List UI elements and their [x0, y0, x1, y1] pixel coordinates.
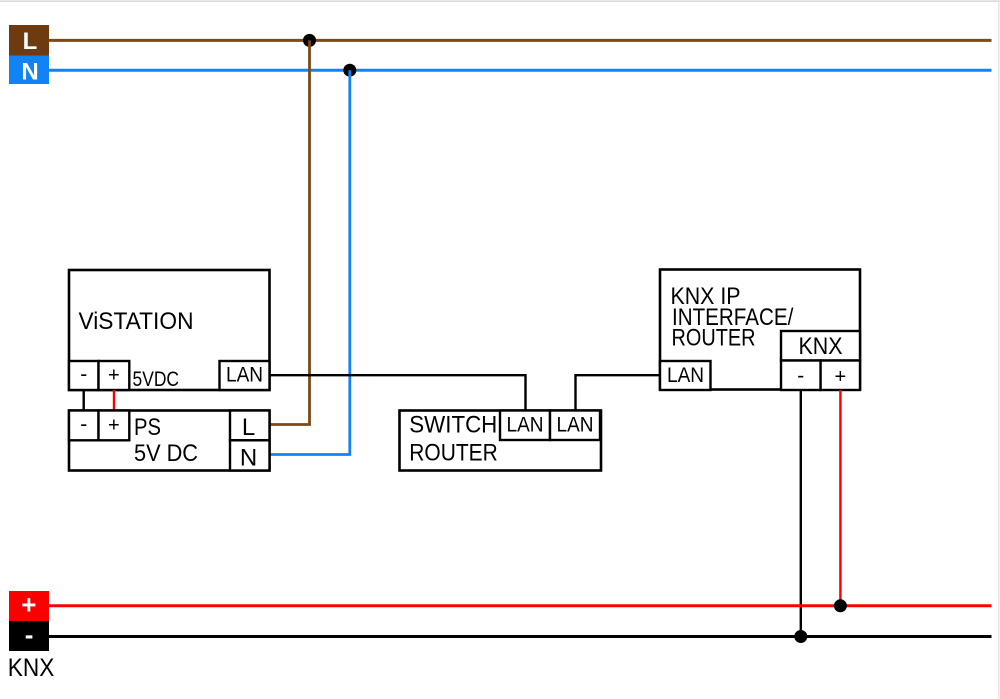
- svg-text:PS: PS: [134, 414, 161, 441]
- node L terminal box: [9, 25, 49, 56]
- box KNX sub-terminal block: [781, 331, 860, 361]
- svg-text:KNX: KNX: [799, 333, 843, 360]
- terminal LAN (knx ip): [660, 361, 711, 390]
- svg-text:+: +: [21, 590, 36, 620]
- box PS 5V DC power supply: [69, 411, 270, 471]
- top page hairline: [0, 0, 1000, 2]
- node N terminal box: [9, 56, 49, 85]
- wire KNX plus drop (red): [839, 390, 841, 606]
- svg-text:-: -: [80, 413, 87, 436]
- right page hairline: [998, 0, 1000, 699]
- box KNX IP INTERFACE/ROUTER: [660, 270, 860, 390]
- svg-text:ROUTER: ROUTER: [409, 440, 498, 467]
- box SWITCH ROUTER: [400, 411, 602, 471]
- svg-text:ROUTER: ROUTER: [672, 325, 756, 352]
- wire LAN switch to KNX IP router: [576, 375, 661, 410]
- svg-text:-: -: [80, 363, 87, 386]
- svg-text:N: N: [240, 444, 257, 471]
- wire KNX minus line (black bus): [49, 635, 992, 638]
- terminal LAN 2 (switch): [550, 411, 600, 441]
- wire minus ViSTATION to PS: [82, 390, 84, 411]
- wire KNX plus line (red bus): [49, 604, 992, 607]
- svg-text:+: +: [108, 415, 120, 437]
- terminal LAN (ViSTATION): [220, 361, 270, 390]
- svg-text:KNX: KNX: [8, 654, 55, 682]
- wire plus ViSTATION to PS (red): [113, 390, 115, 411]
- svg-text:+: +: [108, 365, 120, 387]
- terminal plus (knx ip): [821, 361, 860, 391]
- terminal plus (PS): [99, 411, 130, 441]
- svg-text:LAN: LAN: [226, 364, 263, 387]
- svg-text:-: -: [25, 619, 34, 649]
- terminal N (PS): [230, 440, 270, 470]
- wire brown drop from L line to PS L terminal: [270, 40, 310, 424]
- wire LAN ViSTATION to switch: [270, 375, 526, 410]
- terminal plus (ViSTATION): [99, 361, 130, 390]
- svg-text:5VDC: 5VDC: [133, 368, 180, 391]
- wire KNX minus drop (black): [800, 390, 802, 637]
- terminal minus (knx ip): [781, 361, 821, 391]
- junction on L line: [303, 34, 316, 47]
- node KNX plus terminal box: [9, 591, 49, 621]
- box ViSTATION U1: [69, 270, 270, 390]
- node KNX minus terminal box: [9, 621, 49, 651]
- svg-text:-: -: [797, 365, 804, 388]
- terminal minus (ViSTATION): [69, 361, 99, 390]
- wire blue drop from N line to PS N terminal: [270, 70, 350, 454]
- wire N line (blue mains): [49, 69, 992, 72]
- junction on red bus: [834, 599, 847, 612]
- svg-text:ViSTATION: ViSTATION: [79, 308, 194, 335]
- svg-text:N: N: [21, 59, 38, 86]
- svg-text:LAN: LAN: [667, 364, 704, 387]
- terminal minus (PS): [69, 411, 99, 441]
- terminal LAN 1 (switch): [500, 411, 550, 441]
- svg-text:LAN: LAN: [507, 414, 544, 437]
- svg-text:+: +: [835, 366, 847, 388]
- junction on N line: [343, 64, 356, 77]
- junction on black bus: [794, 630, 807, 643]
- svg-text:SWITCH: SWITCH: [409, 411, 497, 438]
- terminal L (PS): [230, 411, 270, 441]
- wire L line (brown mains): [49, 39, 992, 42]
- svg-text:L: L: [23, 28, 38, 55]
- svg-text:L: L: [242, 414, 255, 441]
- svg-text:LAN: LAN: [557, 414, 594, 437]
- svg-text:5V DC: 5V DC: [134, 440, 198, 467]
